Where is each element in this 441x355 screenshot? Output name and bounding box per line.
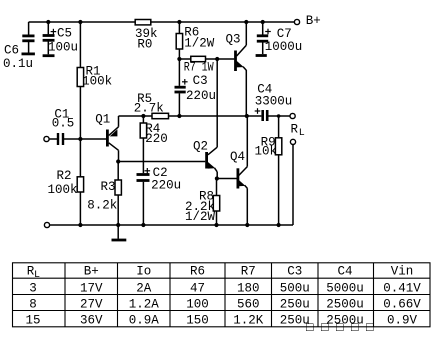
- svg-text:220u: 220u: [186, 89, 216, 103]
- junction rail-C5: [46, 20, 50, 24]
- terminal input ground: [44, 222, 49, 227]
- capacitor C1: [49, 108, 106, 146]
- wire output/feedback line: [119, 115, 262, 117]
- junction bus-C2: [141, 223, 145, 227]
- svg-text:R6: R6: [190, 265, 205, 279]
- svg-text:C6: C6: [4, 44, 19, 58]
- wire bottom ground bus: [50, 224, 293, 226]
- junction Q1 collector / R3: [116, 159, 120, 163]
- resistor R7: [184, 56, 214, 74]
- resistor R1: [77, 22, 112, 139]
- wire RL bottom to ground bus: [292, 145, 294, 226]
- watermark faint: [306, 321, 374, 335]
- svg-text:Q3: Q3: [226, 33, 241, 47]
- svg-text:15: 15: [25, 314, 40, 328]
- resistor R8: [185, 179, 220, 226]
- svg-text:C3: C3: [193, 74, 208, 88]
- svg-text:R7: R7: [241, 265, 256, 279]
- resistor R9: [255, 116, 282, 225]
- capacitor C2: [137, 166, 182, 225]
- resistor R5: [134, 92, 169, 119]
- capacitor C7: [257, 22, 303, 54]
- ground main: [112, 225, 127, 240]
- svg-text:1.2A: 1.2A: [129, 298, 160, 312]
- svg-text:2500u: 2500u: [326, 298, 364, 312]
- svg-text:R3: R3: [101, 180, 116, 194]
- svg-text:250u: 250u: [280, 298, 310, 312]
- svg-text:0.5: 0.5: [52, 117, 75, 131]
- svg-text:560: 560: [237, 298, 260, 312]
- svg-text:B+: B+: [84, 265, 99, 279]
- junction rail-C7: [261, 20, 265, 24]
- svg-text:8: 8: [29, 298, 37, 312]
- svg-text:220u: 220u: [151, 179, 181, 193]
- junction output line / Q3-Q4: [245, 114, 249, 118]
- svg-text:0.9V: 0.9V: [387, 314, 418, 328]
- node RL label: [291, 122, 305, 139]
- junction bus-Q4 emitter: [245, 223, 249, 227]
- svg-text:C3: C3: [287, 265, 302, 279]
- junction bus-R9: [277, 223, 281, 227]
- svg-text:0.41V: 0.41V: [383, 281, 421, 295]
- ground under C6: [22, 53, 35, 56]
- resistor R3: [87, 162, 121, 226]
- terminal RL bottom: [290, 139, 295, 144]
- terminal RL top: [290, 113, 295, 118]
- svg-text:1/2W: 1/2W: [184, 37, 215, 51]
- transistor Q4: [230, 116, 247, 225]
- svg-text:220: 220: [145, 132, 168, 146]
- ground under C5: [43, 54, 55, 57]
- junction rail-R1: [78, 20, 82, 24]
- svg-text:8.2k: 8.2k: [87, 199, 117, 213]
- svg-text:47: 47: [190, 281, 205, 295]
- svg-text:17V: 17V: [80, 281, 103, 295]
- junction rail-Q3 collector: [244, 20, 248, 24]
- junction input node: [78, 137, 82, 141]
- svg-text:□ □ □ □ □: □ □ □ □ □: [306, 321, 374, 335]
- resistor R0: [135, 20, 158, 52]
- svg-text:Q4: Q4: [230, 150, 245, 164]
- svg-text:0.1u: 0.1u: [3, 57, 33, 71]
- terminal input: [44, 136, 49, 141]
- junction R9 top: [277, 114, 281, 118]
- svg-text:1.2K: 1.2K: [233, 314, 264, 328]
- svg-text:500u: 500u: [280, 281, 310, 295]
- junction Q2 emitter / R8: [215, 176, 219, 180]
- svg-text:Q2: Q2: [193, 140, 208, 154]
- svg-text:C4: C4: [337, 265, 352, 279]
- svg-text:Vin: Vin: [391, 265, 414, 279]
- resistor R2: [48, 139, 84, 225]
- svg-text:R7 1W: R7 1W: [184, 60, 214, 74]
- transistor Q3: [226, 22, 247, 116]
- svg-text:180: 180: [237, 281, 260, 295]
- svg-text:R: R: [291, 122, 299, 136]
- junction bus-R8: [214, 223, 218, 227]
- svg-text:R0: R0: [137, 38, 152, 52]
- svg-text:0.9A: 0.9A: [129, 314, 160, 328]
- transistor Q1: [95, 113, 118, 162]
- svg-text:100k: 100k: [82, 75, 112, 89]
- junction R6-R7-C3: [177, 57, 181, 61]
- svg-text:5000u: 5000u: [326, 281, 364, 295]
- svg-text:1/2W: 1/2W: [185, 210, 216, 224]
- wire Q2 emitter to Q4 base: [217, 178, 238, 180]
- junction Q2 collector / R7: [215, 57, 219, 61]
- svg-text:L: L: [34, 270, 40, 281]
- svg-text:R2: R2: [57, 169, 72, 183]
- transistor Q2: [193, 59, 217, 179]
- capacitor C3: [175, 59, 217, 116]
- svg-text:10k: 10k: [255, 144, 278, 158]
- svg-text:2A: 2A: [136, 281, 152, 295]
- junction rail-R6: [177, 20, 181, 24]
- svg-text:100u: 100u: [48, 40, 78, 54]
- capacitor C5: [43, 22, 78, 54]
- resistor R4: [140, 116, 168, 173]
- svg-text:100: 100: [186, 298, 209, 312]
- junction bus-R3: [116, 223, 120, 227]
- junction R4 top: [141, 114, 145, 118]
- svg-text:36V: 36V: [80, 314, 103, 328]
- wire R7 line: [179, 58, 234, 60]
- svg-text:L: L: [299, 128, 305, 139]
- svg-text:3: 3: [29, 281, 37, 295]
- resistor R6: [176, 22, 215, 59]
- svg-text:C5: C5: [57, 26, 72, 40]
- svg-text:0.66V: 0.66V: [383, 298, 421, 312]
- svg-text:B+: B+: [306, 14, 321, 28]
- svg-text:100k: 100k: [48, 183, 78, 197]
- table component values: [13, 263, 431, 327]
- ground under C7: [256, 54, 267, 57]
- junction C3-output line: [177, 114, 181, 118]
- svg-text:150: 150: [186, 314, 209, 328]
- junction bus-R2: [78, 223, 82, 227]
- svg-text:Q1: Q1: [95, 113, 110, 127]
- svg-text:1000u: 1000u: [265, 40, 303, 54]
- wire Q1 collector to Q2 base: [118, 161, 205, 163]
- svg-text:27V: 27V: [80, 298, 103, 312]
- svg-text:2.7k: 2.7k: [134, 102, 164, 116]
- terminal B+: [294, 14, 320, 28]
- capacitor C4: [255, 82, 293, 121]
- svg-text:Io: Io: [136, 265, 151, 279]
- svg-text:3300u: 3300u: [255, 95, 293, 109]
- wire top supply rail: [29, 21, 295, 23]
- capacitor C6: [3, 22, 35, 71]
